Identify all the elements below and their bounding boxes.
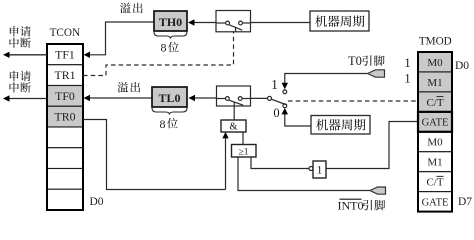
brace 8-bit TL0 [152,108,187,115]
wire GATE to NOT input [326,122,418,169]
wire NOT output to OR input [251,157,309,169]
svg-text:GATE: GATE [422,118,449,129]
svg-text:0: 0 [273,106,279,120]
svg-text:TF0: TF0 [55,89,75,103]
svg-text:TCON: TCON [50,27,80,39]
label interrupt-request 2 [10,71,19,81]
wire OR output to AND input [242,132,244,145]
wire switch S1 to TH0 [194,22,216,24]
svg-text:1: 1 [404,70,411,85]
machine-cycle box 2 [311,116,370,135]
svg-text:M1: M1 [427,157,442,169]
register TL0 [152,87,187,107]
wire machine-cycle 1 to switch S1 [251,22,311,24]
svg-text:&: & [229,122,237,133]
label overflow 1 [120,3,131,14]
label overflow 2 [117,82,128,93]
svg-text:M0: M0 [427,137,443,149]
register TMOD stack [418,52,452,212]
SPDT switch: common pole [268,96,272,100]
register TH0 [154,11,187,31]
wire TF1 to interrupt arrow [9,54,47,56]
switch S1 (C/T select for TH0) [216,11,251,32]
pin symbol T0 [368,70,385,77]
register TCON stack [47,44,83,210]
wire TF0 to interrupt arrow [9,98,47,100]
wire TR0 to AND input (arrow) [225,137,227,190]
wire switch S2 to SPDT common [251,97,268,99]
SPDT contact 1 (T0 pin, counter mode) [283,90,287,94]
svg-text:8: 8 [161,41,167,55]
wire AND output to switch S2 lever [233,106,235,120]
svg-text:C/T: C/T [426,97,443,109]
wire switch S2 to TL0 [194,97,217,99]
svg-text:TH0: TH0 [159,15,182,29]
svg-text:TR1: TR1 [55,68,76,82]
svg-text:1: 1 [271,77,278,92]
wire TH0 overflow to TF1 [89,22,154,55]
svg-text:TL0: TL0 [158,91,180,105]
NOT gate (GATE inverter) [309,167,313,171]
OR gate [232,145,257,158]
wire machine-cycle 2 to contact 0 [285,112,311,126]
svg-text:1: 1 [404,55,411,70]
wire TR0 from TCON [83,120,226,190]
brace 8-bit TH0 [154,32,187,39]
svg-text:D7: D7 [458,196,472,208]
svg-text:TR0: TR0 [55,110,76,124]
svg-text:8: 8 [160,117,166,131]
svg-text:M1: M1 [427,77,442,89]
svg-text:C/T: C/T [426,177,443,189]
wire TL0 overflow to TF0 [89,97,152,99]
SPDT contact 0 (machine cycle, timer mode) [283,104,287,108]
wire INT0 to OR input [238,157,370,191]
svg-text:1: 1 [317,165,323,177]
pin symbol INT0 [370,187,386,194]
svg-text:GATE: GATE [422,198,449,209]
svg-text:D0: D0 [89,196,103,208]
switch S2 (C/T select for TL0) [217,86,251,106]
dashed wire C/T control to SPDT lever [288,100,418,102]
svg-text:≥1: ≥1 [239,147,249,157]
svg-text:M0: M0 [427,57,443,69]
svg-text:TF1: TF1 [55,47,75,61]
dashed wire TR1 control to switch S1 [83,32,234,76]
label interrupt-request 1 [10,26,19,36]
svg-text:INT0: INT0 [338,199,364,213]
svg-text:D0: D0 [455,60,469,72]
wire T0 pin to contact 1 [285,74,368,85]
svg-text:T0: T0 [348,54,362,68]
svg-text:TMOD: TMOD [419,35,452,47]
machine-cycle box 1 [310,11,369,31]
AND gate [221,120,246,132]
